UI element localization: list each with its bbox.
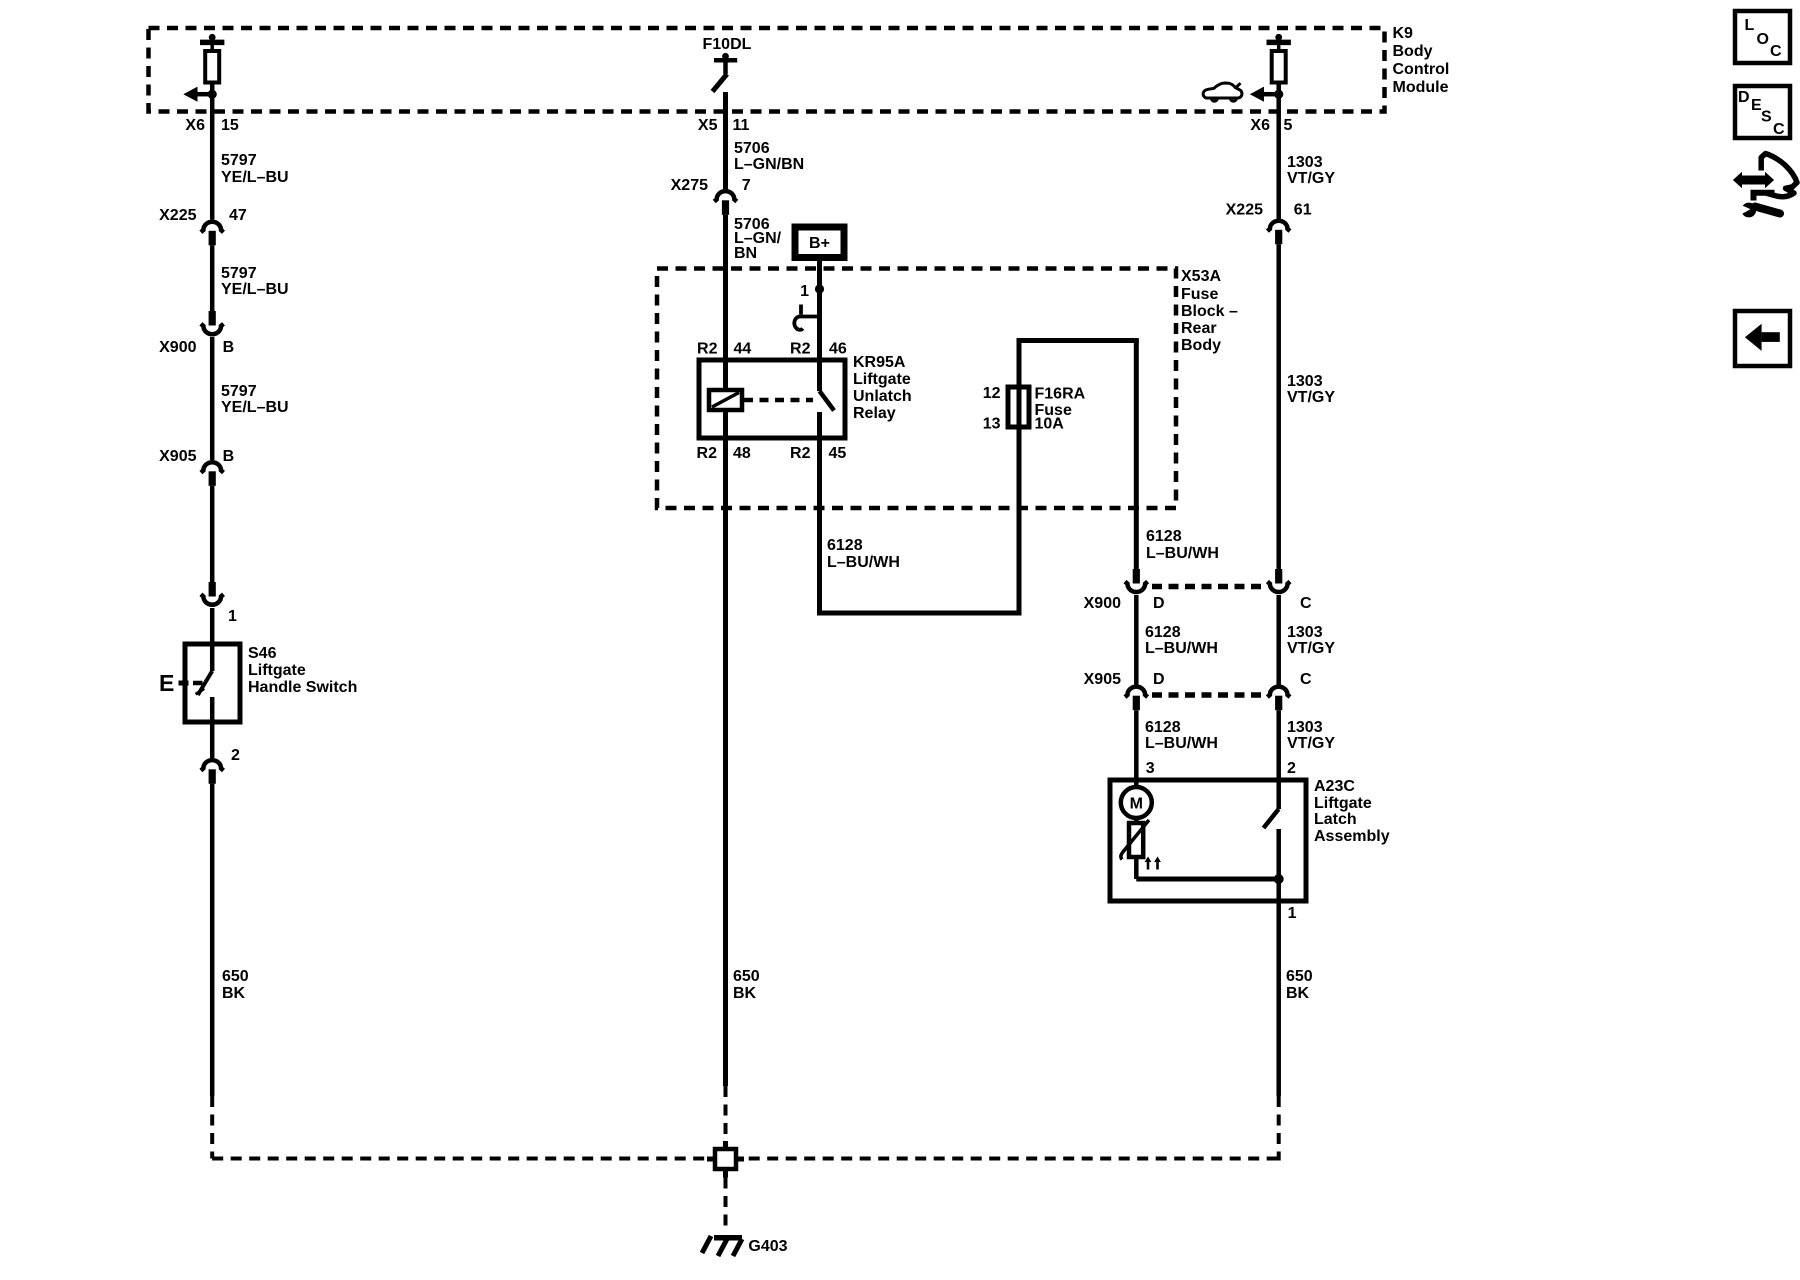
svg-text:3: 3 <box>1146 760 1155 777</box>
wire 6128 segment 3 <box>1134 710 1139 780</box>
wire label 650 BK (left) <box>222 968 249 1002</box>
svg-text:C: C <box>1300 595 1312 612</box>
svg-text:A23C: A23C <box>1314 778 1355 795</box>
dashed wire to ground <box>724 1178 728 1234</box>
svg-text:Relay: Relay <box>853 405 896 422</box>
fuse F16RA <box>1008 387 1029 427</box>
svg-text:S46: S46 <box>248 645 277 662</box>
dashed connector line X900 D-C <box>1152 584 1264 590</box>
wire elbow to fuse bottom <box>817 427 1022 613</box>
svg-text:C: C <box>1773 121 1785 138</box>
X53A Fuse Block label <box>1181 268 1238 354</box>
wire from B+ into fuse block <box>817 261 822 361</box>
svg-text:46: 46 <box>829 341 847 358</box>
svg-text:6128: 6128 <box>827 537 863 554</box>
svg-text:5797: 5797 <box>221 383 257 400</box>
svg-text:5797: 5797 <box>221 265 257 282</box>
svg-text:B+: B+ <box>809 235 830 252</box>
svg-text:BK: BK <box>222 985 246 1002</box>
svg-text:B: B <box>223 339 235 356</box>
DESC reference box <box>1735 86 1790 138</box>
car body icon <box>1203 83 1242 101</box>
dashed ground wire (right drop) <box>1277 1096 1281 1161</box>
svg-text:Handle Switch: Handle Switch <box>248 679 357 696</box>
connector X225 (left) <box>201 222 224 246</box>
svg-text:Block –: Block – <box>1181 303 1238 320</box>
svg-text:Body: Body <box>1181 337 1221 354</box>
fuse F16RA pin labels <box>983 385 1001 433</box>
resistor (BCM driver, left) <box>200 34 224 94</box>
wire label 1303 VT/GY (2) <box>1287 373 1335 406</box>
wire label 5706 L-GN/ BN <box>734 216 782 262</box>
wire label 6128 L-BU/WH (right of fuse block) <box>1146 528 1219 562</box>
svg-text:C: C <box>1770 43 1782 60</box>
bus bar curl symbol <box>794 305 819 330</box>
connector X905 pin B label <box>159 448 234 465</box>
wire label 1303 VT/GY (3) <box>1287 624 1335 657</box>
wire to S46 <box>210 608 215 644</box>
arrow (right BCM output) <box>1250 87 1279 102</box>
A23C Liftgate Latch Assembly label <box>1314 778 1390 845</box>
wire 5797 segment 3 <box>210 337 215 460</box>
relay KR95A coil wire through <box>723 360 728 438</box>
connector X905 (left) <box>201 462 224 486</box>
connector X900 C <box>1267 569 1290 592</box>
svg-text:2: 2 <box>231 747 240 764</box>
thermal protector <box>1121 818 1149 879</box>
svg-text:650: 650 <box>733 968 760 985</box>
pin labels X5 11 <box>698 117 750 134</box>
wire 1303 segment 3 <box>1276 595 1281 685</box>
svg-text:R2: R2 <box>790 445 811 462</box>
latch junction dot <box>1274 874 1284 884</box>
svg-text:D: D <box>1153 671 1165 688</box>
relay KR95A pin labels bottom <box>697 445 847 462</box>
K9 Body Control Module label <box>1393 25 1450 96</box>
wire label 6128 L-BU/WH (to latch) <box>1145 719 1218 752</box>
connector X900 pin B label <box>159 339 234 356</box>
svg-text:R2: R2 <box>697 445 718 462</box>
svg-text:2: 2 <box>1287 760 1296 777</box>
svg-text:D: D <box>1738 89 1750 106</box>
svg-text:Liftgate: Liftgate <box>853 371 911 388</box>
svg-text:X225: X225 <box>1226 202 1263 219</box>
svg-text:48: 48 <box>733 445 751 462</box>
svg-text:650: 650 <box>222 968 249 985</box>
svg-text:6128: 6128 <box>1145 719 1181 736</box>
connector X905 D labels <box>1084 671 1165 688</box>
svg-text:10A: 10A <box>1035 416 1065 433</box>
svg-text:X275: X275 <box>671 177 708 194</box>
back arrow box <box>1735 311 1790 366</box>
svg-text:B: B <box>223 448 235 465</box>
svg-text:G403: G403 <box>748 1238 787 1255</box>
svg-text:X6: X6 <box>1250 117 1270 134</box>
svg-text:S: S <box>1761 109 1772 126</box>
svg-text:5797: 5797 <box>221 152 257 169</box>
wire 6128 segment 2 <box>1134 595 1139 685</box>
svg-text:5: 5 <box>1284 117 1293 134</box>
wire 1303 segment 4 <box>1276 710 1281 780</box>
svg-text:Rear: Rear <box>1181 320 1217 337</box>
svg-text:C: C <box>1300 671 1312 688</box>
arrow (left BCM output) <box>183 87 212 102</box>
circuit breaker F10DL <box>713 53 738 92</box>
relay KR95A box <box>699 360 845 438</box>
connector S46 pin 1 <box>201 582 237 625</box>
battery feed B+ box <box>795 227 844 258</box>
svg-text:YE/L–BU: YE/L–BU <box>221 169 289 186</box>
svg-text:L–BU/WH: L–BU/WH <box>1145 640 1218 657</box>
connector X225 pin 47 label <box>159 207 247 224</box>
svg-text:L–BU/WH: L–BU/WH <box>1146 545 1219 562</box>
F16RA Fuse 10A label <box>1035 386 1086 433</box>
latch switch blade <box>1264 780 1279 879</box>
svg-text:YE/L–BU: YE/L–BU <box>221 281 289 298</box>
svg-text:1303: 1303 <box>1287 154 1323 171</box>
connector X275 <box>714 191 737 215</box>
relay KR95A pin labels top <box>697 341 847 358</box>
svg-text:YE/L–BU: YE/L–BU <box>221 399 289 416</box>
svg-text:X900: X900 <box>159 339 196 356</box>
svg-text:X53A: X53A <box>1181 268 1221 285</box>
svg-text:D: D <box>1153 595 1165 612</box>
svg-text:F10DL: F10DL <box>703 36 752 53</box>
pin labels X6 15 <box>185 117 238 134</box>
svg-text:44: 44 <box>734 341 752 358</box>
motor M <box>1121 780 1152 818</box>
svg-text:Assembly: Assembly <box>1314 828 1390 845</box>
K9 Body Control Module dashed box <box>149 28 1385 112</box>
wire 5797 segment 2 <box>210 245 215 311</box>
svg-text:7: 7 <box>742 177 751 194</box>
connector X905 D (latch) <box>1125 687 1148 711</box>
wire 650 BK (left) <box>210 784 215 1096</box>
svg-text:X6: X6 <box>185 117 205 134</box>
svg-text:47: 47 <box>229 207 247 224</box>
KR95A Liftgate Unlatch Relay label <box>853 354 912 422</box>
switch S46 contacts and blade <box>196 644 213 722</box>
svg-text:BN: BN <box>734 245 757 262</box>
wire 1303 segment 2 <box>1276 244 1281 569</box>
svg-text:E: E <box>159 670 174 696</box>
wire 6128 from relay pin 45 <box>817 438 822 613</box>
wire 650 from latch pin 1 <box>1279 879 1297 1096</box>
svg-text:R2: R2 <box>697 341 718 358</box>
svg-text:VT/GY: VT/GY <box>1287 735 1335 752</box>
wire 5706 segment 2 <box>723 215 728 360</box>
wire label 1303 VT/GY (4) <box>1287 719 1335 752</box>
latch assembly A23C box <box>1110 780 1306 901</box>
relay KR95A switch blade <box>820 360 835 438</box>
wire X6-5 through BCM border <box>1276 94 1281 219</box>
svg-text:1: 1 <box>1288 905 1297 922</box>
ground G403 <box>702 1236 742 1256</box>
svg-text:VT/GY: VT/GY <box>1287 170 1335 187</box>
connector S46 pin 2 <box>201 722 240 784</box>
service icon (arrows and wrench) <box>1733 154 1797 218</box>
svg-text:O: O <box>1757 31 1769 48</box>
svg-text:13: 13 <box>983 416 1001 433</box>
double up arrows <box>1145 857 1161 870</box>
svg-text:650: 650 <box>1286 968 1313 985</box>
relay KR95A dashed actuator link <box>744 398 813 403</box>
svg-text:L–BU/WH: L–BU/WH <box>1145 735 1218 752</box>
wire label 650 BK (right) <box>1286 968 1313 1002</box>
splice S <box>707 1141 744 1178</box>
svg-text:Latch: Latch <box>1314 811 1357 828</box>
connector X900 (left) <box>201 311 224 334</box>
wire label 5797 YE/L-BU (3) <box>221 383 289 416</box>
svg-text:L: L <box>1745 17 1755 34</box>
svg-text:R2: R2 <box>790 341 811 358</box>
wire label 6128 L-BU/WH (below relay) <box>827 537 900 571</box>
svg-text:Liftgate: Liftgate <box>248 662 306 679</box>
connector X225 pin 61 label <box>1226 202 1312 219</box>
svg-text:K9: K9 <box>1393 25 1414 42</box>
wire 5797 segment 4 <box>210 486 215 582</box>
svg-text:X5: X5 <box>698 117 718 134</box>
wire label 5797 YE/L-BU (1) <box>221 152 289 186</box>
svg-text:6128: 6128 <box>1146 528 1182 545</box>
wire X5-11 through BCM border <box>723 92 728 190</box>
svg-text:Liftgate: Liftgate <box>1314 795 1372 812</box>
connector X900 D (latch harness) <box>1125 569 1148 592</box>
fuse block X53A dashed box <box>657 269 1176 509</box>
svg-text:1303: 1303 <box>1287 719 1323 736</box>
svg-text:Unlatch: Unlatch <box>853 388 912 405</box>
dashed ground bus wire <box>212 1157 1279 1161</box>
svg-text:1: 1 <box>800 283 809 300</box>
wire label 650 BK (middle) <box>733 968 760 1002</box>
switch S46 box <box>185 644 240 722</box>
svg-text:VT/GY: VT/GY <box>1287 640 1335 657</box>
svg-text:KR95A: KR95A <box>853 354 906 371</box>
svg-text:VT/GY: VT/GY <box>1287 389 1335 406</box>
svg-text:1: 1 <box>228 608 237 625</box>
svg-text:Fuse: Fuse <box>1181 286 1218 303</box>
junction dot (left BCM output) <box>208 90 217 99</box>
svg-text:5706: 5706 <box>734 140 770 157</box>
connector X905 C <box>1267 687 1290 711</box>
svg-text:BK: BK <box>733 985 757 1002</box>
wire label 6128 L-BU/WH (between connectors) <box>1145 624 1218 657</box>
switch S46 mechanical link E- <box>159 670 203 696</box>
svg-text:X905: X905 <box>159 448 196 465</box>
svg-text:15: 15 <box>221 117 239 134</box>
svg-text:X905: X905 <box>1084 671 1121 688</box>
svg-text:Body: Body <box>1393 43 1433 60</box>
svg-text:F16RA: F16RA <box>1035 386 1086 403</box>
wire label 5706 L-GN/BN <box>734 140 804 173</box>
connector X900 D labels <box>1084 595 1165 612</box>
svg-text:M: M <box>1130 796 1143 813</box>
svg-text:45: 45 <box>829 445 847 462</box>
svg-text:1303: 1303 <box>1287 373 1323 390</box>
svg-text:L–BU/WH: L–BU/WH <box>827 554 900 571</box>
wire label 5797 YE/L-BU (2) <box>221 265 289 298</box>
svg-text:X225: X225 <box>159 207 196 224</box>
svg-text:11: 11 <box>733 117 750 134</box>
dashed splice drop (middle) <box>724 1086 728 1147</box>
svg-text:Module: Module <box>1393 79 1449 96</box>
svg-text:1303: 1303 <box>1287 624 1323 641</box>
svg-text:X900: X900 <box>1084 595 1121 612</box>
wire X6-15 through BCM border <box>210 94 215 219</box>
wire 650 from relay pin 48 <box>723 438 728 1086</box>
svg-text:Control: Control <box>1393 61 1450 78</box>
svg-text:61: 61 <box>1294 202 1312 219</box>
S46 Liftgate Handle Switch label <box>248 645 357 696</box>
junction dot (right BCM output) <box>1274 90 1283 99</box>
wire elbow from fuse top <box>1017 341 1139 570</box>
resistor (BCM driver, right) <box>1267 34 1291 94</box>
LOC reference box <box>1735 11 1790 63</box>
dashed ground wire (left drop) <box>210 1096 214 1159</box>
svg-text:BK: BK <box>1286 985 1310 1002</box>
pin labels X6 5 <box>1250 117 1292 134</box>
relay KR95A coil <box>709 390 742 410</box>
dashed connector line X905 D-C <box>1152 692 1264 698</box>
node 1 junction dot <box>800 283 824 300</box>
latch internal link wire <box>1136 877 1278 882</box>
connector X275 pin 7 label <box>671 177 751 194</box>
connector X225 (right) <box>1267 221 1290 245</box>
wire label 1303 VT/GY (1) <box>1287 154 1335 187</box>
svg-text:L–GN/BN: L–GN/BN <box>734 156 804 173</box>
svg-text:12: 12 <box>983 385 1001 402</box>
svg-text:6128: 6128 <box>1145 624 1181 641</box>
